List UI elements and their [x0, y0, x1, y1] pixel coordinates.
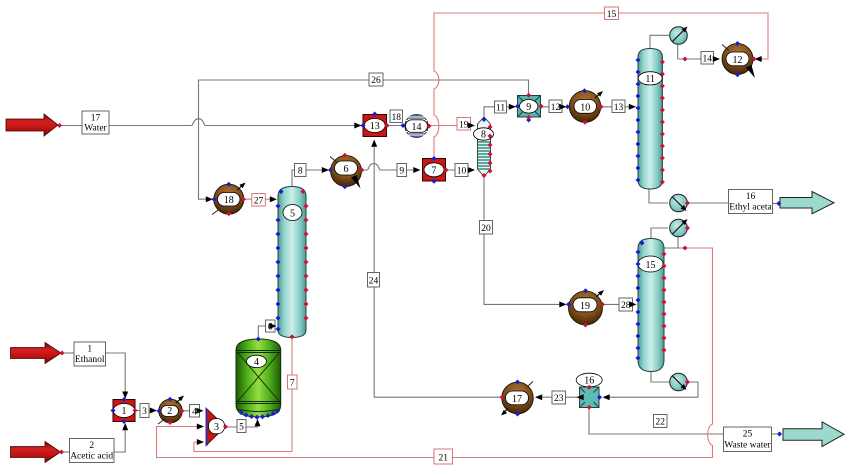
wire reboiler15 to sq 16 — [604, 382, 698, 397]
stream box 16 Ethyl acetate — [729, 190, 773, 214]
svg-text:16: 16 — [746, 192, 756, 202]
svg-text:15: 15 — [646, 260, 656, 271]
svg-text:6: 6 — [344, 164, 349, 175]
stream box 20 — [480, 221, 493, 235]
svg-text:26: 26 — [371, 76, 381, 86]
wire stream 8 (col5 top to pump 6) — [292, 170, 328, 188]
wire sq16 bottom to waste water box — [589, 408, 723, 435]
wire stream 6 (reactor 4 to column 5) — [258, 326, 275, 340]
stream box 5 — [237, 420, 246, 433]
cooler 17 (brown sphere) — [499, 382, 533, 418]
svg-text:3: 3 — [142, 407, 147, 417]
wire water feed to heater 13 (with hop at x198) — [60, 119, 360, 126]
wire stream 28 (pump 19 to column 15) — [603, 303, 633, 305]
stream box 12 — [549, 100, 562, 113]
stream box 14 — [701, 52, 714, 65]
stream box 26 — [369, 73, 383, 86]
wire stream 12 (sq 9 to pump 10) — [541, 106, 565, 108]
wire condenser down — [677, 44, 679, 59]
wire acetic feed to box — [61, 451, 70, 453]
wire stream 20 (hx8 bottom down to pump 19) — [484, 176, 565, 304]
svg-text:Water: Water — [84, 124, 107, 134]
stream box 22 — [654, 415, 668, 428]
wire stream 24 (cooler 17 to heater 13 bottom) — [374, 141, 502, 397]
svg-text:2: 2 — [167, 406, 172, 417]
stream box 19 (pink) — [457, 118, 471, 131]
svg-text:10: 10 — [580, 102, 590, 113]
svg-text:12: 12 — [733, 55, 743, 66]
svg-text:20: 20 — [481, 224, 491, 234]
wire condenser15 down to tee — [677, 237, 679, 248]
svg-text:Waste water: Waste water — [724, 441, 771, 451]
stream box 6 — [266, 320, 276, 333]
svg-text:8: 8 — [298, 167, 303, 177]
svg-text:12: 12 — [551, 103, 561, 113]
wire stream 18 (13 to valve 14) — [387, 125, 404, 127]
stream box 8 — [295, 164, 307, 177]
svg-text:2: 2 — [89, 441, 94, 451]
svg-text:17: 17 — [512, 394, 522, 405]
wire waste box to cyan arrow — [772, 433, 782, 435]
wire stream 14 (to pump 12) — [678, 58, 718, 60]
stream box 1 Ethanol — [74, 342, 106, 366]
svg-text:17: 17 — [91, 114, 101, 124]
heater 13 (red square) — [363, 115, 387, 137]
svg-text:25: 25 — [743, 430, 753, 440]
svg-text:11: 11 — [496, 104, 505, 114]
pump 12 (brown sphere) — [722, 44, 755, 79]
wire col15 bottom to reboiler 15 — [651, 372, 669, 382]
stream box 23 — [552, 391, 566, 404]
wire stream 23 (sq16 to cooler 17) — [536, 396, 579, 398]
wire product box to cyan arrow — [772, 203, 780, 205]
svg-text:5: 5 — [290, 209, 295, 220]
stream box 18 — [390, 110, 403, 123]
wire stream 19 pink (valve14 to hx8) — [429, 125, 473, 127]
feed arrow ethanol — [11, 343, 62, 364]
heat exchanger 8 (striped shell-tube) — [474, 117, 494, 177]
svg-text:13: 13 — [370, 121, 380, 132]
stream box 13 — [612, 100, 625, 113]
svg-text:22: 22 — [655, 418, 665, 428]
wire stream 5 (mixer 3 to reactor 4) — [226, 420, 258, 427]
hx 16 (teal square with oval label) — [576, 373, 602, 407]
wire col15 top to condenser 15 — [651, 228, 668, 239]
stream box 2 Acetic acid — [70, 439, 115, 463]
stream box 15 (pink) — [605, 7, 619, 20]
svg-text:14: 14 — [412, 122, 422, 133]
wire stream 4 (pump 2 to mixer 3) — [182, 410, 202, 412]
stream box 3 — [140, 404, 149, 418]
wire stream 27 pink (heater18 to column5) — [244, 198, 275, 200]
wire stream 15 pink (hx7 top up over hops to pump 12) — [434, 13, 768, 158]
pump 6 (brown sphere) — [330, 156, 362, 189]
arrowheads on streams — [122, 56, 762, 445]
svg-text:1: 1 — [87, 345, 92, 355]
svg-text:7: 7 — [432, 165, 437, 176]
reboiler circle col11 — [670, 194, 688, 212]
wire stream 26 (sq 9 top to heater 18) — [199, 80, 529, 199]
svg-text:Ethyl aceta: Ethyl aceta — [729, 203, 772, 213]
svg-text:15: 15 — [607, 10, 617, 20]
mixer 3 (red triangle with blue serration) — [206, 408, 226, 446]
svg-text:9: 9 — [526, 102, 531, 113]
product arrow waste water — [783, 422, 844, 447]
svg-text:23: 23 — [554, 394, 564, 404]
wire stream 16 (reboiler to product box) — [688, 202, 729, 204]
svg-text:4: 4 — [254, 357, 259, 368]
column 15 (teal) — [638, 239, 664, 372]
svg-text:19: 19 — [459, 120, 469, 130]
product arrow ethyl acetate — [780, 192, 834, 214]
node diamonds red — [57, 57, 757, 455]
reactor 4 (green vessel) — [236, 339, 281, 417]
svg-text:11: 11 — [645, 74, 655, 85]
wire stream 10 (hx 7 to hx 8) — [446, 169, 473, 171]
stream box 27 (pink) — [252, 194, 265, 207]
svg-text:10: 10 — [457, 167, 467, 177]
pump 19 (brown sphere) — [569, 288, 606, 325]
heat exchanger 9 (teal square) — [518, 96, 541, 118]
stream box 11 — [495, 101, 507, 114]
wire stream 21 pink (col15 top junction to mixer 3) — [157, 248, 713, 458]
wire col11 top to condenser — [650, 35, 669, 49]
svg-text:13: 13 — [614, 103, 624, 113]
WIRES-PINK — [157, 13, 769, 458]
node diamonds blue — [111, 41, 783, 437]
feed arrow water — [6, 114, 58, 136]
condenser circle col11 — [670, 25, 689, 44]
svg-text:8: 8 — [481, 130, 486, 141]
svg-text:18: 18 — [391, 113, 401, 123]
stream box 21 (pink) — [434, 449, 453, 464]
wire stream 13 (pump 10 to column 11) — [601, 106, 633, 108]
stream box 24 — [368, 273, 380, 288]
svg-text:7: 7 — [290, 379, 295, 389]
svg-text:24: 24 — [369, 277, 379, 287]
heat exchanger 7 (red square) — [423, 159, 446, 182]
wire stream 11 (hx8 top to sq 9) — [484, 107, 515, 119]
wire ethanol box to mixer 1 — [106, 353, 126, 398]
svg-text:18: 18 — [224, 195, 234, 206]
wire stream 7 pink (col5 bottom to mixer 3) — [194, 337, 292, 452]
reboiler circle col15 — [670, 373, 688, 391]
stream box 25 Waste water — [724, 427, 772, 452]
svg-text:28: 28 — [621, 301, 631, 311]
stream box 7 (pink) — [288, 375, 298, 389]
stream box 9 — [397, 164, 407, 177]
wire ethanol feed to box — [61, 352, 74, 354]
svg-text:1: 1 — [122, 406, 127, 417]
svg-text:21: 21 — [438, 454, 448, 464]
svg-text:5: 5 — [239, 423, 244, 433]
stream box 4 — [190, 405, 200, 418]
pump 2 (brown sphere) — [158, 394, 186, 424]
column 5 (teal) — [278, 187, 306, 338]
mixer 1 (red square) — [113, 400, 135, 422]
svg-text:27: 27 — [254, 196, 264, 206]
svg-text:14: 14 — [702, 54, 712, 64]
svg-text:Ethanol: Ethanol — [75, 355, 105, 365]
stream box 10 — [455, 164, 468, 177]
wire col15 top side to pink junction — [664, 247, 686, 249]
stream box 17 Water — [82, 111, 109, 134]
wire col11 bottom to reboiler — [649, 189, 668, 203]
valve 14 (striped circle) — [405, 114, 428, 137]
condenser circle col15 — [670, 217, 689, 236]
svg-text:9: 9 — [399, 167, 404, 177]
stream box 28 — [619, 298, 633, 311]
svg-text:3: 3 — [214, 422, 219, 433]
wire acetic box to mixer 1 — [114, 424, 125, 452]
svg-text:Acetic acid: Acetic acid — [70, 452, 113, 462]
wire stream 3 (mixer1 to pump 2) — [135, 410, 156, 412]
pump 10 (brown sphere) — [0, 89, 605, 122]
column 11 (teal) — [638, 49, 662, 190]
svg-text:19: 19 — [580, 301, 590, 312]
wire stream 9 (pump 6 to hx 7, hop at x373.5) — [362, 164, 419, 171]
heater 18 (brown sphere) — [212, 181, 247, 215]
WIRES-GREY — [60, 35, 781, 452]
feed arrow acetic acid — [11, 442, 61, 463]
